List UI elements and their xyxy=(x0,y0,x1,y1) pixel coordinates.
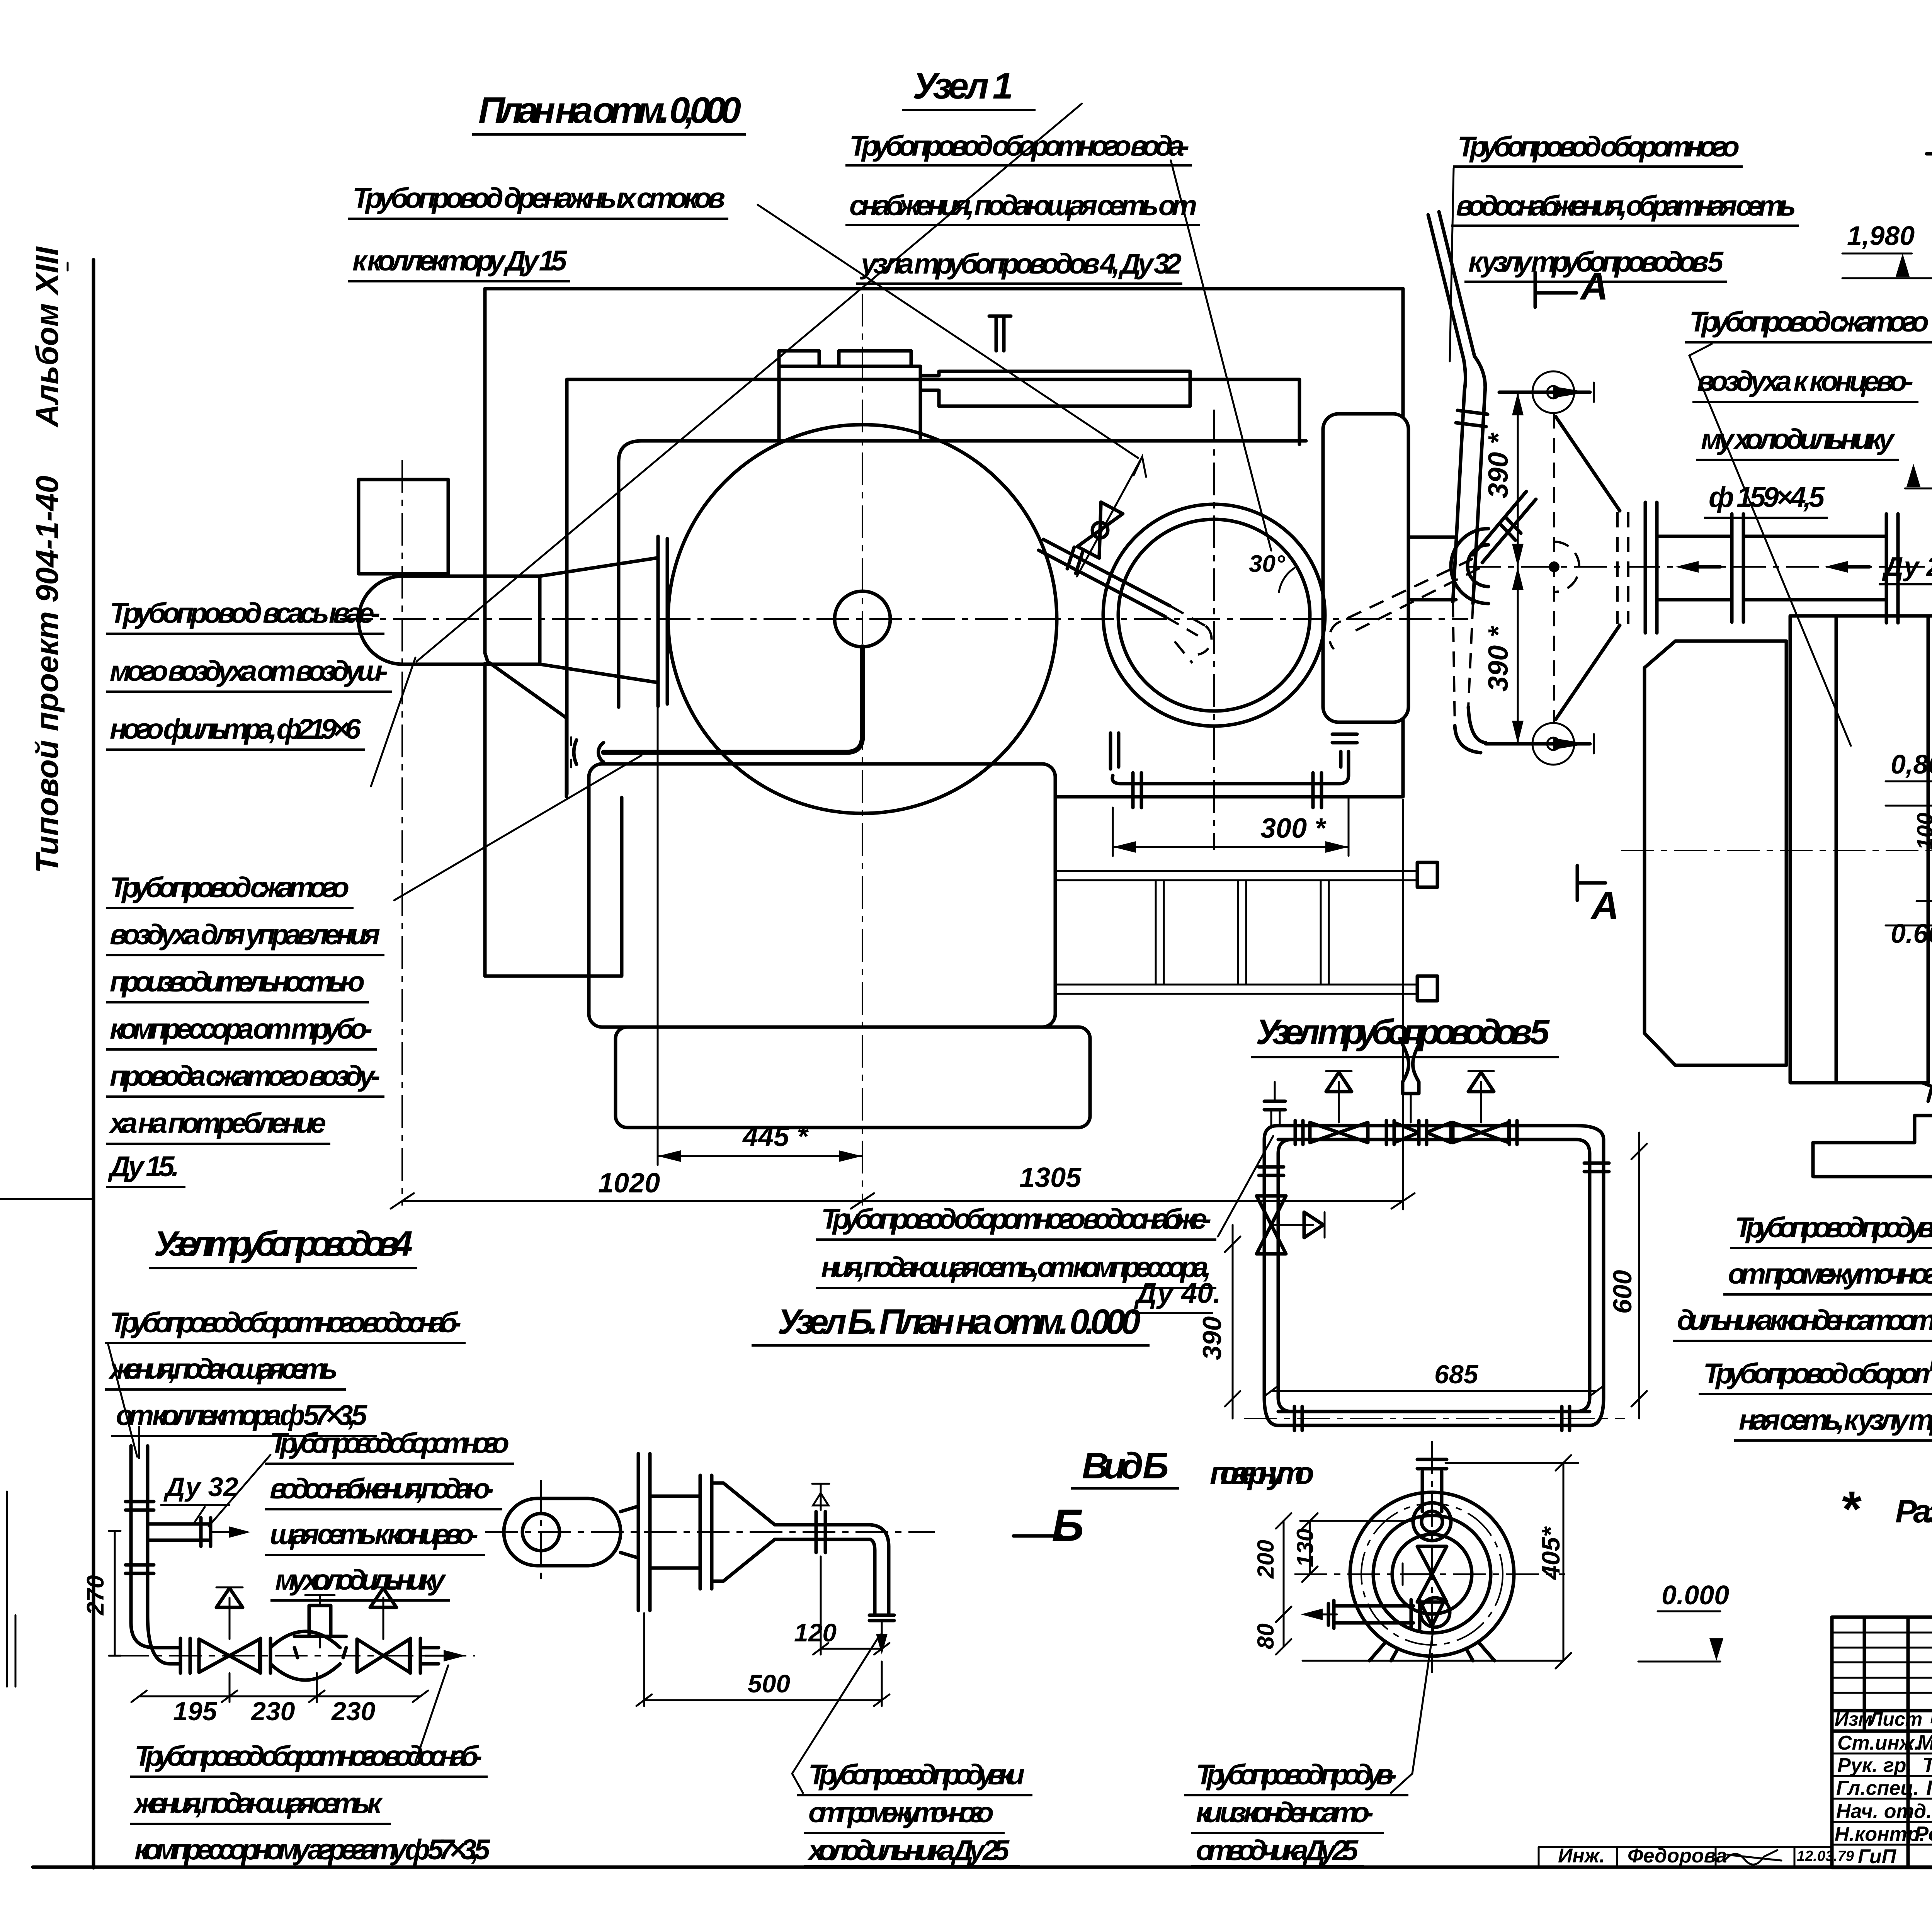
end cooler flange bars xyxy=(1886,514,1898,623)
svg-text:Таболова: Таболова xyxy=(1922,1753,1932,1777)
detail centerline xyxy=(1468,566,1932,568)
svg-text:Вид Б: Вид Б xyxy=(1082,1445,1169,1486)
side view pipe xyxy=(775,1525,870,1539)
plan indicator stub xyxy=(989,316,1011,351)
stub to top vent circle xyxy=(1499,391,1590,394)
svg-text:200: 200 xyxy=(1253,1540,1279,1579)
svg-text:мого воздуха от воздуш-: мого воздуха от воздуш- xyxy=(110,655,388,687)
view direction mark Б xyxy=(1014,1534,1061,1538)
svg-text:0,800: 0,800 xyxy=(1891,749,1932,779)
svg-text:А: А xyxy=(1579,265,1608,308)
svg-text:Инж.: Инж. xyxy=(1558,1845,1605,1867)
svg-text:Трубопровод сжатого: Трубопровод сжатого xyxy=(110,871,349,903)
revision grid horizontals xyxy=(1832,1633,1932,1693)
leader from управления label to drain pipe xyxy=(394,755,641,900)
cooling pipe right elbow up xyxy=(1337,752,1349,797)
svg-text:воздуха к концево-: воздуха к концево- xyxy=(1697,365,1913,397)
svg-text:12.03.79: 12.03.79 xyxy=(1797,1848,1854,1864)
header row line xyxy=(1832,1711,1932,1731)
plan inner rounded frame xyxy=(619,441,1306,707)
svg-text:Трубопровод продувки: Трубопровод продувки xyxy=(1735,1211,1932,1243)
cooler inner circle xyxy=(1373,1515,1491,1633)
leader from label to riser xyxy=(108,1345,137,1457)
sheet bottom border line xyxy=(33,1866,1932,1869)
connect bracket to flange xyxy=(621,1506,638,1558)
svg-text:270: 270 xyxy=(82,1575,109,1616)
plan base rounded rect lower xyxy=(616,1027,1090,1128)
leaning pipe mid run xyxy=(1453,390,1485,604)
svg-text:Трубопровод всасывае-: Трубопровод всасывае- xyxy=(110,597,380,629)
plan intercooler inner circle xyxy=(1118,519,1310,711)
dim 130 xyxy=(1300,1520,1414,1522)
binding strip bottom left xyxy=(6,1492,8,1687)
узел4 riser pipe xyxy=(131,1446,180,1664)
stub to bottom vent circle xyxy=(1486,742,1590,746)
svg-text:узла трубопроводов 4, Ду 32: узла трубопроводов 4, Ду 32 xyxy=(859,248,1182,280)
compensator stem with handle xyxy=(309,1605,331,1636)
svg-text:195: 195 xyxy=(173,1697,218,1726)
leader from узел5 label to pipe xyxy=(1450,168,1454,361)
corner stub flange xyxy=(1264,1101,1285,1110)
flange bars solid xyxy=(1645,502,1657,633)
leader from агрегату label to end xyxy=(415,1665,448,1762)
cooler bolt circle dash xyxy=(1361,1503,1503,1645)
flange C xyxy=(410,1638,420,1673)
svg-text:Ду 40.: Ду 40. xyxy=(1134,1277,1221,1309)
svg-text:от коллектора ф 57×3,5: от коллектора ф 57×3,5 xyxy=(116,1399,368,1431)
plan outer casing right edge lower xyxy=(1056,719,1403,797)
svg-text:Ст.инж.: Ст.инж. xyxy=(1837,1732,1920,1754)
30 degree arc mark xyxy=(1279,568,1294,592)
diagonal pipe to intercooler xyxy=(1039,539,1170,617)
dim 390 узел5 xyxy=(1232,1225,1234,1418)
leaning pipe lower dashed part xyxy=(1453,602,1473,726)
svg-text:му холодильнику: му холодильнику xyxy=(1701,423,1896,455)
svg-text:Узел 1: Узел 1 xyxy=(913,65,1013,107)
svg-text:30°: 30° xyxy=(1249,551,1286,577)
valve 1 bowtie xyxy=(199,1639,260,1672)
vase stem of valve 2 xyxy=(1400,1039,1422,1094)
svg-text:ная сеть, к узлу трубопро: ная сеть, к узлу трубопроводов 4 Ду 40 xyxy=(1739,1404,1932,1436)
svg-text:щая сеть к концево-: щая сеть к концево- xyxy=(270,1518,478,1550)
center dot and hidden arc xyxy=(1549,561,1560,572)
table row lines xyxy=(1832,1753,1932,1845)
svg-text:А: А xyxy=(1590,884,1619,927)
flow arrow 2 xyxy=(1832,565,1869,569)
dim 500 xyxy=(644,1699,882,1701)
leader to loop xyxy=(1218,1136,1273,1236)
plan suction taper cone xyxy=(540,558,657,682)
plan cylinder head block xyxy=(779,366,920,441)
nozzle pipe lines xyxy=(1422,1471,1442,1512)
small valve hat on pipe xyxy=(812,1484,829,1510)
leader from drain label to pipe xyxy=(758,205,1138,458)
second flange bars xyxy=(700,1475,712,1589)
valve 1 on top run xyxy=(1310,1122,1368,1143)
dim 80 xyxy=(1283,1614,1285,1647)
svg-text:компрессорному агрегату ф 5: компрессорному агрегату ф 57×3,5 xyxy=(134,1833,491,1866)
svg-text:Трубопровод оборотного водос: Трубопровод оборотного водоснаб- xyxy=(110,1306,461,1338)
valve 2 bowtie xyxy=(357,1639,410,1672)
bottom elbow circle xyxy=(1420,1598,1450,1627)
bottom centerline xyxy=(1244,1418,1625,1419)
plan inner casing rect xyxy=(567,379,1299,794)
top run flanges xyxy=(1295,1121,1517,1145)
svg-text:Трубопровод сжатого: Трубопровод сжатого xyxy=(1689,306,1929,338)
svg-text:Ду 32: Ду 32 xyxy=(163,1472,238,1502)
return diagonal pipe upper xyxy=(1473,492,1536,563)
svg-text:компрессора от трубо-: компрессора от трубо- xyxy=(110,1013,372,1045)
trapezoid lower diagonal xyxy=(1556,625,1620,719)
dim line 390/390 vertical xyxy=(1517,392,1519,744)
section mark A top xyxy=(1535,272,1577,307)
plan ladder rungs xyxy=(1156,880,1329,985)
nozzle pipe xyxy=(1657,536,1731,600)
plan ladder right caps xyxy=(1417,862,1437,887)
frame foot xyxy=(1813,1083,1932,1177)
svg-text:*: * xyxy=(1840,1481,1862,1537)
svg-text:Трубопровод оборотного водосн: Трубопровод оборотного водоснаб- xyxy=(134,1740,482,1772)
dims 195 230 230 xyxy=(139,1696,420,1697)
svg-text:Узел Б. План на отм. 0.00: Узел Б. План на отм. 0.000 xyxy=(777,1302,1141,1342)
svg-text:130: 130 xyxy=(1292,1529,1318,1567)
svg-text:600: 600 xyxy=(1608,1270,1637,1314)
svg-text:жения, подающая сеть к: жения, подающая сеть к xyxy=(133,1787,383,1819)
loop top-left corner xyxy=(1264,1126,1292,1153)
capsule bracket xyxy=(504,1498,621,1566)
svg-text:к коллектору Ду 15: к коллектору Ду 15 xyxy=(352,245,568,277)
svg-text:Типовой проект 904-1-40: Типовой проект 904-1-40 xyxy=(30,476,65,873)
valve 1 stem xyxy=(229,1598,231,1639)
svg-text:405*: 405* xyxy=(1536,1526,1565,1580)
svg-text:0.600: 0.600 xyxy=(1891,918,1932,949)
pipe flange pair xyxy=(816,1512,825,1553)
top break line xyxy=(1927,152,1932,156)
svg-text:Рогошкина: Рогошкина xyxy=(1915,1822,1932,1845)
right run flanges xyxy=(1584,1163,1609,1172)
leader from сжатого label xyxy=(1689,344,1851,746)
row centerline xyxy=(116,1655,475,1656)
loop bottom corners xyxy=(1264,1398,1604,1425)
svg-text:Гл.спец.: Гл.спец. xyxy=(1836,1777,1919,1799)
bracket hole xyxy=(522,1514,560,1551)
motor block xyxy=(1645,641,1786,1065)
trapezoid upper diagonal xyxy=(1556,417,1620,511)
svg-text:Лист: Лист xyxy=(1868,1708,1922,1730)
valve 2 on top run xyxy=(1394,1122,1451,1143)
svg-text:Ду 25: Ду 25 xyxy=(1882,551,1932,582)
funnel to drain elbow xyxy=(1420,1602,1444,1626)
svg-text:Изм: Изм xyxy=(1835,1708,1872,1730)
svg-text:Малыеина: Малыеина xyxy=(1917,1731,1932,1754)
dim 405* xyxy=(1563,1463,1565,1661)
svg-text:0.000: 0.000 xyxy=(1662,1580,1729,1610)
leaning pipe upper run xyxy=(1428,212,1475,359)
plan outer casing bottom-left step xyxy=(485,653,566,797)
ground line xyxy=(1814,1175,1932,1179)
svg-text:230: 230 xyxy=(250,1697,295,1726)
svg-text:Альбом XIII: Альбом XIII xyxy=(30,246,65,428)
plan drain pipe end fitting xyxy=(574,740,604,764)
plan suction flange bars xyxy=(656,536,660,706)
plan cylinder head cap small rect 2 xyxy=(839,351,911,366)
bottom run flanges xyxy=(1294,1406,1570,1430)
plan cylinder head cap small rect 1 xyxy=(779,351,819,366)
svg-text:холодильника Ду 25: холодильника Ду 25 xyxy=(807,1834,1010,1866)
leader to suction pipe xyxy=(371,658,415,786)
svg-text:провода сжатого возду-: провода сжатого возду- xyxy=(110,1060,380,1092)
nozzle end flange bars xyxy=(1732,514,1743,622)
svg-text:Трубопровод оборотного водос: Трубопровод оборотного водоснабжения обр… xyxy=(1703,1357,1932,1389)
hidden flange dashed bars xyxy=(1617,512,1628,624)
plan centerline suction xyxy=(401,460,403,1206)
section mark A bottom xyxy=(1577,866,1605,900)
svg-text:План на отм. 0,000: План на отм. 0,000 xyxy=(478,90,741,131)
left run valve 4 xyxy=(1257,1196,1286,1254)
plan second cylinder block xyxy=(920,371,1190,406)
elbow down xyxy=(870,1525,889,1615)
plan bottom-left foundation rect xyxy=(485,663,622,976)
long leader across plan xyxy=(417,104,1082,662)
riser flanges xyxy=(126,1502,154,1573)
svg-text:685: 685 xyxy=(1434,1360,1479,1389)
control valve on diagonal xyxy=(1077,457,1142,577)
diagonal pipe flange ticks xyxy=(1067,547,1083,573)
svg-text:дильника к конденсатоотводчику: дильника к конденсатоотводчику xyxy=(1677,1304,1932,1336)
svg-text:390 *: 390 * xyxy=(1483,432,1514,498)
leader to branch xyxy=(209,1455,270,1526)
svg-text:1,980: 1,980 xyxy=(1847,221,1915,251)
ground line xyxy=(1303,1660,1563,1662)
svg-text:водоснабжения, подаю-: водоснабжения, подаю- xyxy=(270,1473,494,1505)
cooler outer circle xyxy=(1350,1492,1514,1656)
svg-text:300 *: 300 * xyxy=(1260,813,1327,844)
svg-text:445 *: 445 * xyxy=(742,1121,809,1152)
flange B xyxy=(260,1638,270,1673)
svg-text:производительностью: производительностью xyxy=(110,966,365,998)
svg-text:1305: 1305 xyxy=(1019,1162,1082,1193)
svg-text:230: 230 xyxy=(331,1697,376,1726)
side view centerline xyxy=(485,1531,935,1533)
svg-text:Трубопровод оборотного: Трубопровод оборотного xyxy=(1458,131,1740,163)
plan outer casing outline xyxy=(485,289,1403,653)
inner valve hourglass xyxy=(1417,1546,1447,1602)
svg-text:водоснабжения, обратная сеть: водоснабжения, обратная сеть xyxy=(1456,190,1796,222)
svg-text:Трубопровод оборотного: Трубопровод оборотного xyxy=(270,1427,509,1459)
plan ladder bottom rail xyxy=(1056,985,1417,994)
riser top centerline xyxy=(138,1426,140,1461)
compensator arcs xyxy=(270,1631,340,1680)
pipe to end cooler xyxy=(1743,536,1886,600)
signature strip xyxy=(1539,1847,1832,1867)
plan flywheel hub small circle xyxy=(835,591,890,647)
leaning pipe top elbow xyxy=(1464,356,1485,392)
loop top run xyxy=(1278,1126,1576,1139)
leader from узла4 label to pipe xyxy=(1171,160,1271,551)
frame block xyxy=(1790,616,1932,1083)
svg-text:Н.контр.: Н.контр. xyxy=(1835,1823,1925,1845)
table vertical lines xyxy=(1864,1617,1932,1867)
plan return pipe elbow C-arc xyxy=(1451,529,1488,604)
bottom vent circle with arrow xyxy=(1532,723,1574,765)
plan centerline horizontal xyxy=(340,618,1468,620)
svg-text:отводчика Ду 25: отводчика Ду 25 xyxy=(1196,1834,1359,1866)
motor centerline xyxy=(1621,850,1932,851)
svg-text:390: 390 xyxy=(1197,1316,1227,1360)
dim 120 xyxy=(821,1648,882,1650)
top stub flange xyxy=(1417,1459,1447,1469)
svg-text:Федорова: Федорова xyxy=(1628,1845,1727,1867)
plan base rounded rect upper xyxy=(589,764,1055,1027)
top vent circle with arrow xyxy=(1532,371,1574,413)
sheet left border line xyxy=(92,260,95,1868)
valve row flange A xyxy=(180,1638,190,1673)
svg-text:снабжения, подающая сеть от: снабжения, подающая сеть от xyxy=(849,189,1197,221)
leaning pipe bottom elbow xyxy=(1455,707,1486,753)
dim 600 xyxy=(1638,1133,1640,1418)
svg-text:Трубопровод оборотного водос: Трубопровод оборотного водоснабже- xyxy=(821,1203,1211,1235)
plan ladder top rail xyxy=(1056,871,1417,880)
plan air filter box xyxy=(359,480,448,574)
svg-text:120: 120 xyxy=(794,1618,837,1647)
svg-text:1020: 1020 xyxy=(598,1168,660,1199)
left stub pipe xyxy=(1334,1606,1413,1623)
plan suction pipe with round cap xyxy=(359,576,540,664)
svg-text:100: 100 xyxy=(1913,813,1932,850)
svg-text:Преснов: Преснов xyxy=(1926,1776,1932,1799)
main flange tall bars xyxy=(638,1454,650,1611)
plan drain thick pipe from hub xyxy=(604,647,862,752)
flow arrow in nozzle xyxy=(1683,565,1720,569)
svg-text:Трубопровод продув-: Трубопровод продув- xyxy=(1196,1759,1397,1791)
cooling pipe flange pairs xyxy=(1131,773,1135,808)
loop right run xyxy=(1590,1139,1604,1398)
loop top-right corner xyxy=(1576,1126,1604,1153)
branch Ду32 xyxy=(148,1524,209,1540)
svg-text:Рук. гр.: Рук. гр. xyxy=(1837,1754,1912,1777)
bracket vertical centerline xyxy=(540,1480,542,1584)
plan centerline intercooler xyxy=(1213,410,1215,850)
frame inner line xyxy=(1835,616,1838,1083)
svg-text:му холодильнику: му холодильнику xyxy=(275,1564,447,1596)
plan intercooler outer circle xyxy=(1103,504,1325,726)
diagonal pipe dashed continuation xyxy=(1165,606,1206,636)
svg-text:80: 80 xyxy=(1253,1623,1279,1649)
svg-text:№ докум.: № докум. xyxy=(1930,1706,1932,1728)
return diagonal dashed into cooler xyxy=(1341,559,1480,632)
svg-text:ки из конденсато-: ки из конденсато- xyxy=(1196,1796,1374,1828)
svg-text:Узел трубопроводов 4: Узел трубопроводов 4 xyxy=(154,1224,413,1264)
svg-text:воздуха для управления: воздуха для управления xyxy=(110,918,380,951)
plan pipe to end cooler upper xyxy=(1408,537,1456,600)
control valve arrowhead xyxy=(1134,457,1146,477)
plan centerline vertical main xyxy=(862,294,863,1206)
plan separator rounded rect xyxy=(1323,414,1408,722)
end stub with arrow xyxy=(420,1648,439,1664)
side view cone xyxy=(712,1483,775,1581)
leaning pipe flange ticks xyxy=(1456,410,1488,427)
title block outer frame xyxy=(1832,1617,1932,1867)
dim 200 xyxy=(1283,1521,1285,1614)
plan cooling pipe below intercooler xyxy=(1111,733,1339,797)
svg-text:Нач. отд.: Нач. отд. xyxy=(1836,1800,1932,1823)
dashed projection vertical xyxy=(1553,413,1555,723)
svg-text:ха на потребление: ха на потребление xyxy=(108,1107,326,1139)
svg-text:Трубопровод дренажных стоков: Трубопровод дренажных стоков xyxy=(352,182,725,214)
svg-text:ного фильтра, ф219×6: ного фильтра, ф219×6 xyxy=(110,713,361,745)
elbow end bars xyxy=(869,1615,894,1621)
svg-text:Размеры для справок: Размеры для справок xyxy=(1895,1493,1932,1529)
valve stem left xyxy=(1403,1563,1430,1585)
plan flywheel big circle xyxy=(668,425,1057,813)
svg-text:повернуто: повернуто xyxy=(1210,1456,1314,1491)
svg-text:390 *: 390 * xyxy=(1483,626,1514,692)
top small nozzle circles xyxy=(1413,1503,1451,1541)
top reference line xyxy=(1446,1462,1578,1464)
svg-text:ГиП: ГиП xyxy=(1858,1845,1897,1868)
tail arrow down xyxy=(881,1621,883,1645)
svg-text:500: 500 xyxy=(748,1669,790,1698)
valve 3 on top run xyxy=(1453,1122,1509,1143)
dim 685 xyxy=(1271,1390,1597,1392)
cooling pipe stub flanges xyxy=(1332,733,1357,736)
return diagonal flange ticks xyxy=(1501,518,1521,540)
neck between flanges xyxy=(650,1496,700,1568)
svg-text:Б: Б xyxy=(1052,1500,1084,1551)
svg-text:Ду 15.: Ду 15. xyxy=(107,1150,179,1182)
loop bottom run xyxy=(1278,1412,1590,1425)
svg-text:Трубопровод продувки: Трубопровод продувки xyxy=(808,1759,1025,1791)
svg-text:от промежуточного холо-: от промежуточного холо- xyxy=(1728,1258,1932,1290)
left run flanges xyxy=(1259,1167,1284,1175)
valve 2 stem xyxy=(383,1598,384,1639)
feet xyxy=(1369,1643,1495,1661)
binding tick left edge xyxy=(0,1198,94,1200)
svg-text:ф 159×4,5: ф 159×4,5 xyxy=(1709,481,1825,513)
loop left run xyxy=(1264,1139,1278,1398)
svg-text:от промежуточного: от промежуточного xyxy=(808,1796,994,1828)
svg-text:жения, подающая сеть: жения, подающая сеть xyxy=(108,1353,338,1385)
